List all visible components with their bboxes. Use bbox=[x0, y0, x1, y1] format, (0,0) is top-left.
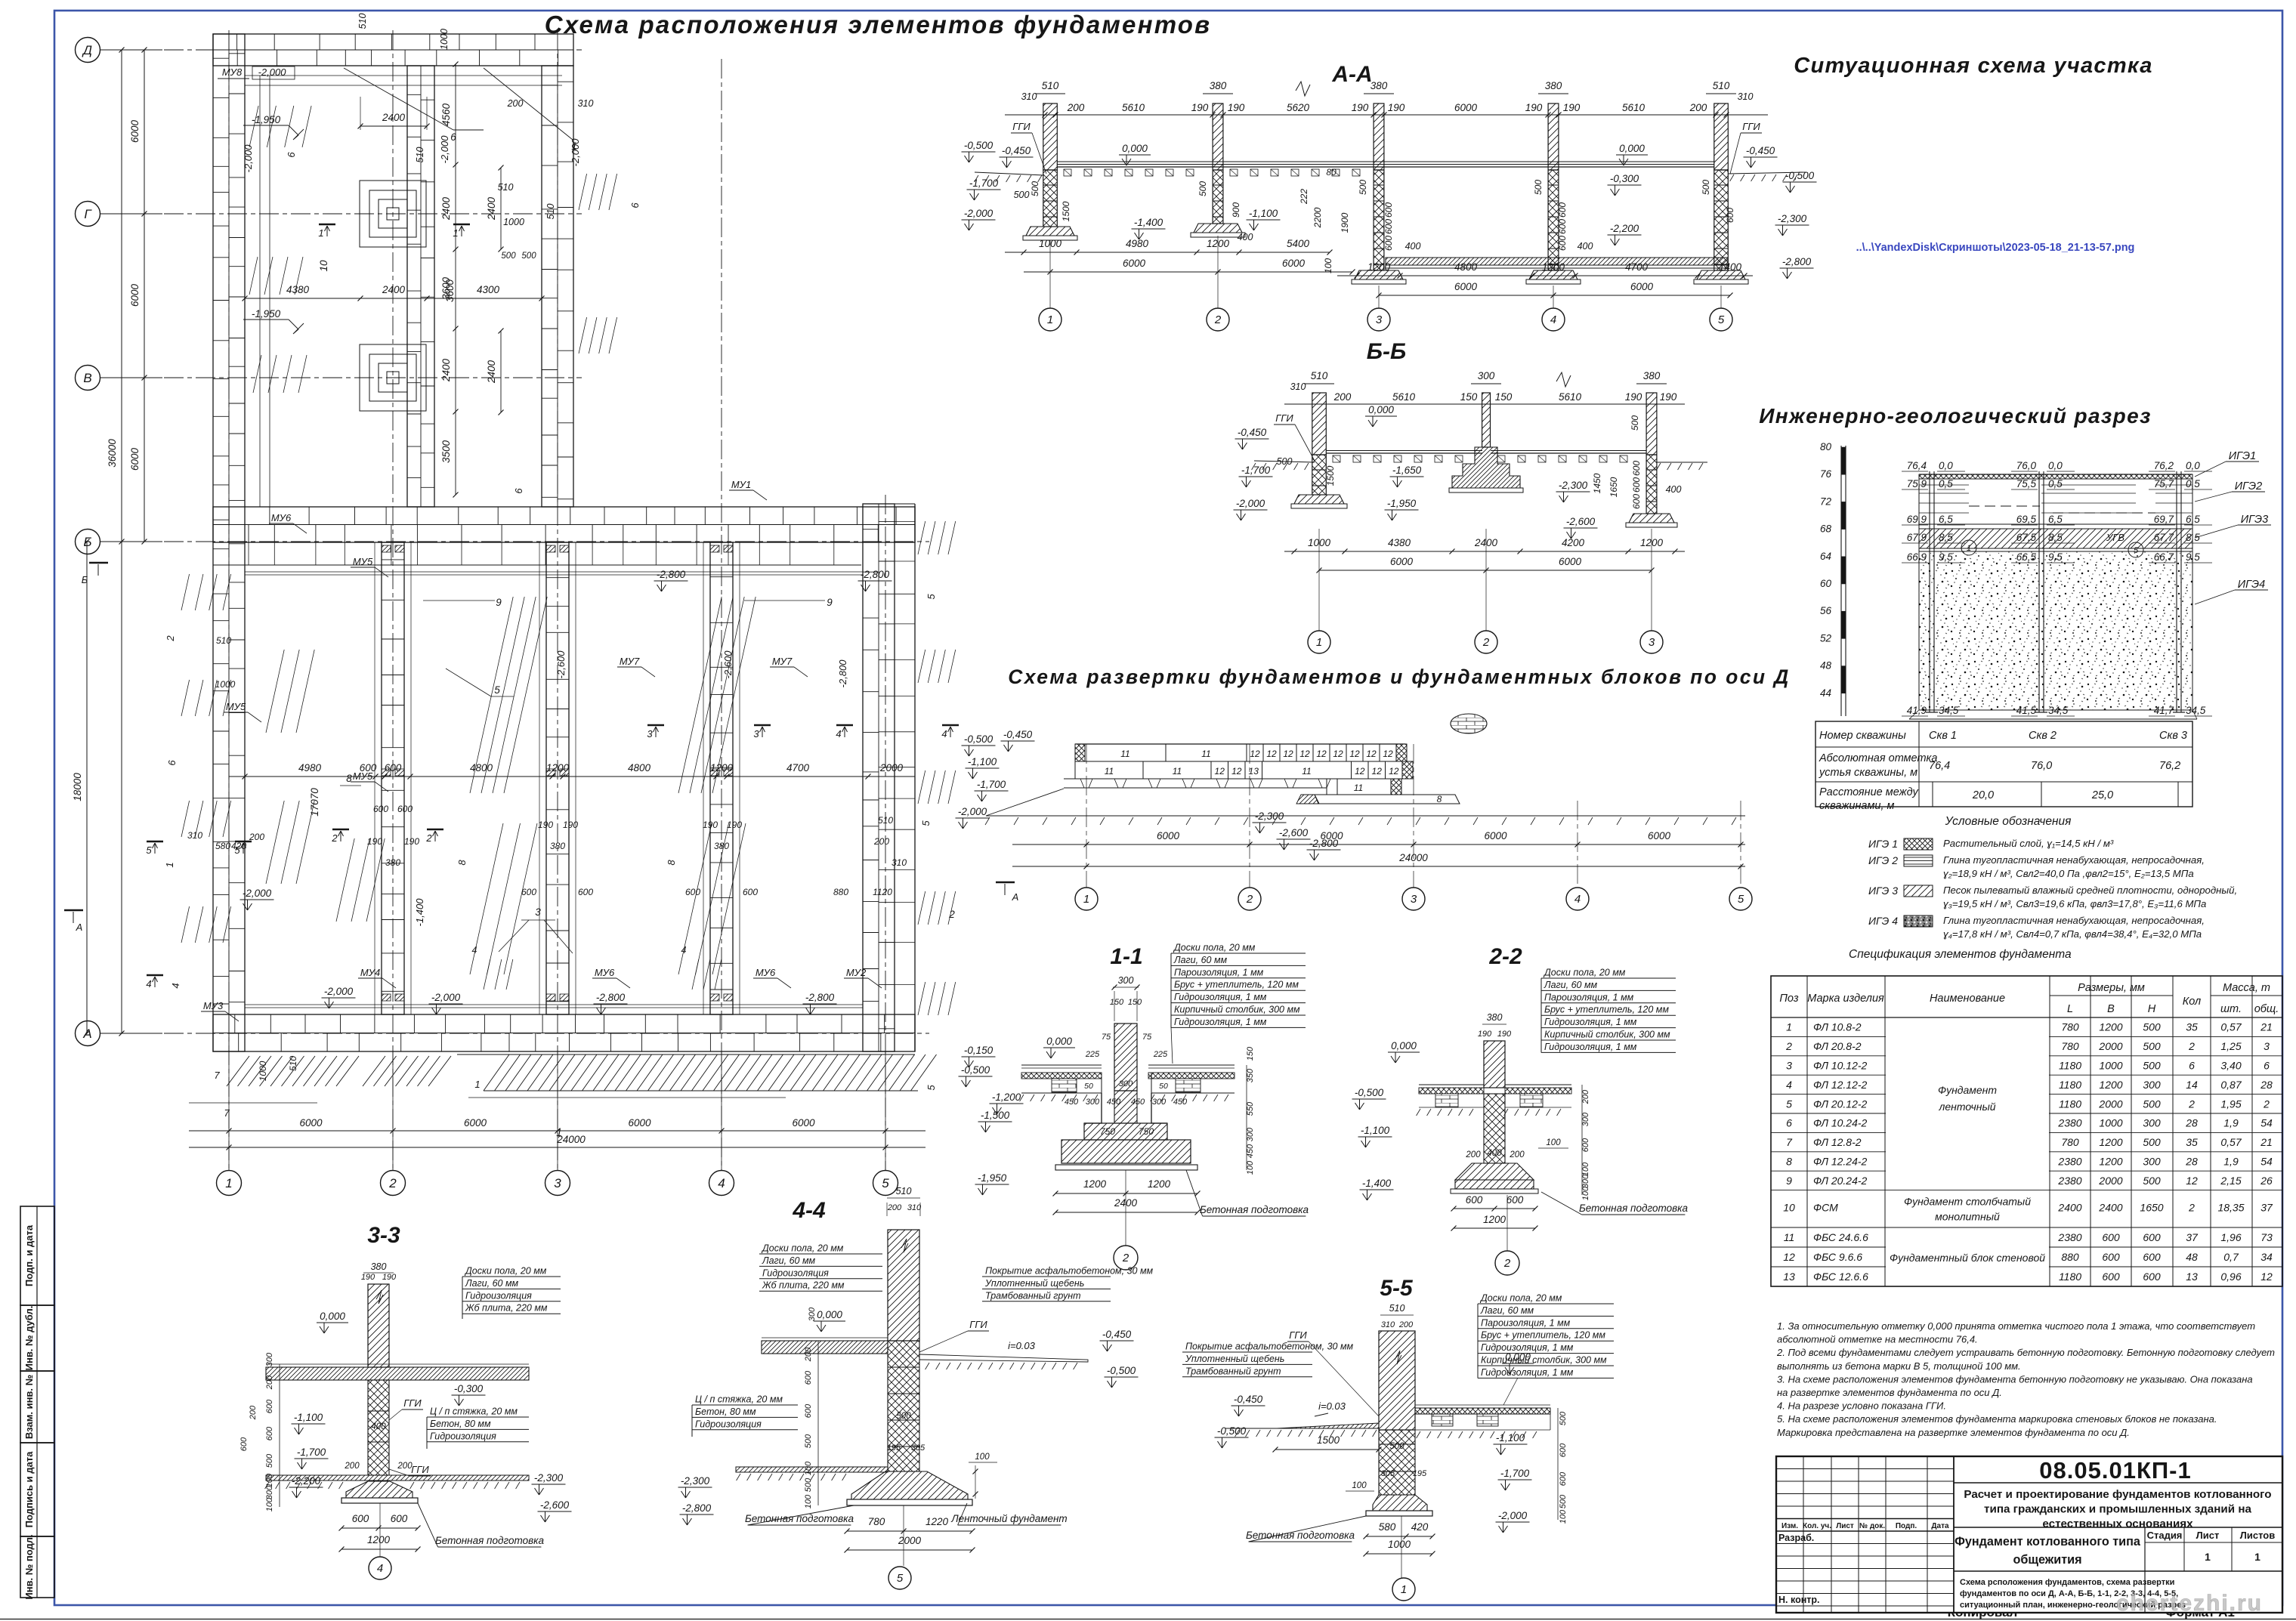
svg-text:-1,200: -1,200 bbox=[992, 1091, 1021, 1103]
svg-text:400: 400 bbox=[1666, 484, 1682, 495]
svg-text:ФЛ 12.12-2: ФЛ 12.12-2 bbox=[1813, 1079, 1868, 1091]
svg-text:76,0: 76,0 bbox=[2016, 460, 2037, 471]
svg-text:750: 750 bbox=[1100, 1126, 1115, 1137]
svg-text:ГГИ: ГГИ bbox=[1742, 121, 1760, 132]
svg-text:600: 600 bbox=[385, 762, 402, 773]
svg-text:МУ6: МУ6 bbox=[271, 512, 292, 523]
svg-text:600: 600 bbox=[352, 1513, 369, 1524]
svg-text:Схема рсположения фундаментов,: Схема рсположения фундаментов, схема раз… bbox=[1960, 1578, 2174, 1587]
svg-text:Маркировка представлена на раз: Маркировка представлена на развертке эле… bbox=[1777, 1427, 2130, 1438]
svg-text:310: 310 bbox=[1738, 91, 1754, 102]
svg-text:80: 80 bbox=[1326, 167, 1337, 178]
svg-text:67,9: 67,9 bbox=[1907, 532, 1927, 543]
svg-text:2000: 2000 bbox=[879, 762, 904, 773]
svg-text:6: 6 bbox=[629, 202, 641, 208]
svg-text:1,95: 1,95 bbox=[2220, 1098, 2241, 1110]
svg-text:600: 600 bbox=[2143, 1251, 2161, 1263]
svg-text:600: 600 bbox=[1506, 1194, 1524, 1206]
svg-text:1: 1 bbox=[1047, 313, 1053, 326]
svg-text:600: 600 bbox=[265, 1426, 274, 1440]
svg-text:0,000: 0,000 bbox=[1619, 143, 1645, 154]
svg-text:1400: 1400 bbox=[1719, 261, 1742, 273]
svg-text:5620: 5620 bbox=[1287, 102, 1310, 113]
svg-text:11: 11 bbox=[1105, 766, 1114, 777]
svg-text:5: 5 bbox=[234, 844, 240, 856]
svg-text:Масса, т: Масса, т bbox=[2223, 982, 2270, 994]
svg-text:Бетонная подготовка: Бетонная подготовка bbox=[1200, 1204, 1309, 1215]
svg-text:200: 200 bbox=[873, 836, 889, 847]
svg-text:34,5: 34,5 bbox=[2048, 705, 2069, 716]
svg-text:500: 500 bbox=[1630, 415, 1640, 431]
svg-text:1000: 1000 bbox=[215, 679, 236, 690]
svg-text:Расчет и проектирование фундам: Расчет и проектирование фундаментов котл… bbox=[1964, 1488, 2271, 1501]
svg-text:МУ7: МУ7 bbox=[772, 656, 793, 667]
svg-text:-1,700: -1,700 bbox=[1500, 1468, 1530, 1479]
svg-text:4: 4 bbox=[472, 945, 477, 956]
svg-text:6000: 6000 bbox=[129, 283, 141, 307]
svg-text:Взам. инв. №: Взам. инв. № bbox=[23, 1375, 35, 1439]
svg-text:76: 76 bbox=[1820, 468, 1832, 480]
svg-text:12: 12 bbox=[1366, 749, 1377, 759]
svg-text:ФСМ: ФСМ bbox=[1813, 1202, 1838, 1214]
svg-text:2: 2 bbox=[2188, 1098, 2195, 1110]
svg-text:Гидроизоляция: Гидроизоляция bbox=[430, 1431, 496, 1441]
svg-text:510: 510 bbox=[216, 635, 231, 646]
svg-text:510: 510 bbox=[288, 1056, 298, 1071]
svg-text:12: 12 bbox=[1316, 749, 1327, 759]
svg-text:2400: 2400 bbox=[486, 360, 497, 384]
svg-text:400: 400 bbox=[371, 1422, 386, 1431]
svg-text:190: 190 bbox=[1228, 102, 1245, 113]
svg-text:6000: 6000 bbox=[1559, 556, 1582, 567]
svg-text:310: 310 bbox=[1021, 91, 1037, 102]
svg-text:500: 500 bbox=[2143, 1175, 2161, 1187]
svg-text:Кол: Кол bbox=[2183, 996, 2201, 1008]
svg-text:Доски пола, 20 мм: Доски пола, 20 мм bbox=[761, 1243, 844, 1254]
svg-text:6000: 6000 bbox=[1454, 102, 1478, 113]
svg-text:420: 420 bbox=[1411, 1521, 1429, 1533]
svg-text:300: 300 bbox=[2143, 1079, 2161, 1091]
svg-text:В: В bbox=[83, 371, 91, 385]
svg-text:Гидроизоляция, 1 мм: Гидроизоляция, 1 мм bbox=[1544, 1042, 1637, 1052]
svg-text:ФЛ 20.12-2: ФЛ 20.12-2 bbox=[1813, 1098, 1868, 1110]
svg-text:ГГИ: ГГИ bbox=[1289, 1329, 1307, 1341]
svg-text:Лаги, 60 мм: Лаги, 60 мм bbox=[1544, 980, 1598, 990]
svg-text:-2,300: -2,300 bbox=[1559, 480, 1588, 491]
svg-text:1. За относительную отметку: 1. За относительную отметку 0,000 принят… bbox=[1777, 1320, 2255, 1332]
svg-text:4700: 4700 bbox=[1625, 261, 1649, 273]
svg-text:-2,800: -2,800 bbox=[861, 569, 890, 580]
svg-text:510: 510 bbox=[1713, 80, 1730, 91]
svg-text:5-5: 5-5 bbox=[1380, 1276, 1414, 1301]
svg-text:Гидроизоляция: Гидроизоляция bbox=[695, 1419, 762, 1429]
svg-text:Бетонная подготовка: Бетонная подготовка bbox=[1246, 1530, 1355, 1541]
svg-text:190: 190 bbox=[1191, 102, 1209, 113]
svg-text:4: 4 bbox=[836, 728, 841, 739]
svg-text:0,57: 0,57 bbox=[2220, 1136, 2242, 1148]
svg-text:-0,500: -0,500 bbox=[964, 733, 993, 745]
svg-text:2: 2 bbox=[1482, 636, 1490, 649]
svg-text:600: 600 bbox=[1466, 1194, 1483, 1206]
svg-text:69,9: 69,9 bbox=[1907, 514, 1927, 525]
svg-text:75: 75 bbox=[1142, 1033, 1152, 1042]
svg-text:-2,000: -2,000 bbox=[964, 208, 993, 219]
svg-text:67,7: 67,7 bbox=[2154, 532, 2174, 543]
svg-text:Песок пылеватый влажный средне: Песок пылеватый влажный средней плотност… bbox=[1943, 885, 2237, 896]
svg-text:7: 7 bbox=[224, 1107, 230, 1119]
svg-text:4: 4 bbox=[1786, 1079, 1792, 1091]
svg-text:880: 880 bbox=[833, 887, 848, 897]
svg-text:Ситуационная схема участка: Ситуационная схема участка bbox=[1794, 54, 2152, 78]
svg-text:6000: 6000 bbox=[129, 119, 141, 143]
svg-text:0,0: 0,0 bbox=[2186, 460, 2200, 471]
svg-text:Гидроизоляция, 1 мм: Гидроизоляция, 1 мм bbox=[1174, 992, 1267, 1002]
svg-text:600: 600 bbox=[1557, 236, 1568, 251]
svg-text:5: 5 bbox=[926, 594, 937, 600]
svg-text:6000: 6000 bbox=[1282, 258, 1306, 269]
svg-text:300: 300 bbox=[1152, 1098, 1167, 1107]
svg-text:-2,600: -2,600 bbox=[555, 650, 567, 679]
svg-text:600: 600 bbox=[373, 804, 388, 814]
svg-text:4: 4 bbox=[1550, 313, 1556, 326]
svg-text:76,0: 76,0 bbox=[2031, 760, 2052, 772]
svg-text:6: 6 bbox=[2189, 1060, 2195, 1072]
svg-text:13: 13 bbox=[2186, 1271, 2198, 1283]
svg-text:1200: 1200 bbox=[546, 762, 570, 773]
svg-text:54: 54 bbox=[2260, 1117, 2273, 1129]
svg-text:600: 600 bbox=[265, 1399, 274, 1413]
svg-text:ɣ₂=18,9 кН / м³, Свл2=40,0: ɣ₂=18,9 кН / м³, Свл2=40,0 Па ,φвл2=15°,… bbox=[1943, 868, 2194, 879]
svg-text:380: 380 bbox=[1210, 80, 1227, 91]
svg-text:300: 300 bbox=[1581, 1112, 1590, 1126]
svg-text:500: 500 bbox=[501, 252, 516, 261]
svg-text:37: 37 bbox=[2260, 1202, 2273, 1214]
svg-text:100: 100 bbox=[1581, 1162, 1590, 1176]
svg-text:600: 600 bbox=[2143, 1231, 2161, 1243]
svg-text:-0,450: -0,450 bbox=[1238, 427, 1267, 438]
svg-text:225: 225 bbox=[1153, 1050, 1168, 1059]
svg-text:450: 450 bbox=[1107, 1098, 1121, 1107]
svg-text:ФЛ 10.24-2: ФЛ 10.24-2 bbox=[1813, 1117, 1868, 1129]
svg-text:190: 190 bbox=[1563, 102, 1581, 113]
svg-text:2400: 2400 bbox=[440, 196, 452, 221]
svg-text:0,000: 0,000 bbox=[1122, 143, 1148, 154]
svg-text:Дата: Дата bbox=[1931, 1522, 1949, 1530]
svg-text:ФБС 24.6.6: ФБС 24.6.6 bbox=[1813, 1231, 1868, 1243]
svg-text:2380: 2380 bbox=[2057, 1231, 2081, 1243]
svg-text:Бетонная подготовка: Бетонная подготовка bbox=[1579, 1203, 1689, 1214]
svg-text:8: 8 bbox=[346, 773, 352, 784]
svg-text:4: 4 bbox=[377, 1562, 383, 1575]
svg-text:-0,300: -0,300 bbox=[1610, 173, 1639, 184]
svg-text:500: 500 bbox=[1559, 1494, 1568, 1508]
svg-text:222: 222 bbox=[1299, 189, 1309, 205]
svg-text:12: 12 bbox=[1231, 766, 1242, 777]
svg-text:1,96: 1,96 bbox=[2220, 1231, 2241, 1243]
svg-text:-2,800: -2,800 bbox=[805, 992, 835, 1003]
svg-text:76,2: 76,2 bbox=[2159, 760, 2180, 772]
svg-text:4700: 4700 bbox=[786, 762, 810, 773]
svg-text:780: 780 bbox=[2061, 1136, 2079, 1148]
svg-text:естественных основаниях: естественных основаниях bbox=[2042, 1518, 2193, 1530]
svg-text:12: 12 bbox=[1283, 749, 1293, 759]
svg-text:-2,000: -2,000 bbox=[431, 992, 461, 1003]
svg-text:общ.: общ. bbox=[2254, 1003, 2279, 1015]
svg-text:-1,100: -1,100 bbox=[294, 1412, 323, 1423]
svg-text:6,5: 6,5 bbox=[1939, 514, 1953, 525]
svg-text:450: 450 bbox=[1246, 1144, 1255, 1158]
svg-text:0,000: 0,000 bbox=[1368, 404, 1394, 415]
svg-text:12: 12 bbox=[1389, 766, 1399, 777]
svg-text:300: 300 bbox=[2143, 1156, 2161, 1168]
svg-text:8: 8 bbox=[666, 860, 677, 866]
svg-text:Марка изделия: Марка изделия bbox=[1807, 993, 1884, 1005]
svg-text:200: 200 bbox=[265, 1375, 274, 1390]
svg-text:-1,700: -1,700 bbox=[297, 1447, 326, 1458]
svg-text:-2,800: -2,800 bbox=[596, 992, 626, 1003]
svg-text:Покрытие асфальтобетоном, 30 м: Покрытие асфальтобетоном, 30 мм bbox=[985, 1266, 1154, 1277]
svg-text:4980: 4980 bbox=[298, 762, 322, 773]
svg-text:Лаги, 60 мм: Лаги, 60 мм bbox=[465, 1278, 519, 1289]
svg-text:6000: 6000 bbox=[1390, 556, 1414, 567]
svg-text:-0,500: -0,500 bbox=[964, 140, 993, 151]
svg-text:780: 780 bbox=[868, 1516, 885, 1527]
svg-text:500: 500 bbox=[804, 1434, 813, 1448]
svg-text:типа гражданских и промышленны: типа гражданских и промышленных зданий н… bbox=[1984, 1503, 2251, 1516]
svg-text:-0,450: -0,450 bbox=[1102, 1329, 1132, 1340]
svg-text:100: 100 bbox=[1323, 258, 1333, 273]
svg-text:36000: 36000 bbox=[107, 439, 118, 468]
svg-text:73: 73 bbox=[2260, 1231, 2273, 1243]
svg-text:-2,300: -2,300 bbox=[534, 1472, 564, 1484]
svg-text:Схема расположения элементов ф: Схема расположения элементов фундаментов bbox=[545, 11, 1212, 39]
svg-text:3: 3 bbox=[1411, 893, 1417, 906]
svg-text:400: 400 bbox=[1238, 232, 1253, 242]
svg-text:0,7: 0,7 bbox=[2223, 1251, 2239, 1263]
svg-text:Стадия: Стадия bbox=[2147, 1530, 2183, 1541]
svg-text:300: 300 bbox=[2143, 1117, 2161, 1129]
svg-text:-1,950: -1,950 bbox=[252, 308, 281, 320]
svg-text:ИГЭ2: ИГЭ2 bbox=[2235, 480, 2262, 492]
svg-text:6: 6 bbox=[286, 152, 297, 158]
svg-text:1: 1 bbox=[1316, 636, 1322, 649]
svg-text:190: 190 bbox=[727, 820, 742, 830]
svg-text:510: 510 bbox=[1389, 1303, 1405, 1314]
svg-text:-1,700: -1,700 bbox=[977, 779, 1006, 790]
svg-text:12: 12 bbox=[2186, 1175, 2198, 1187]
svg-text:10: 10 bbox=[1783, 1202, 1795, 1214]
svg-text:-2,600: -2,600 bbox=[722, 650, 734, 679]
svg-text:Гидроизоляция: Гидроизоляция bbox=[465, 1290, 532, 1301]
svg-text:8: 8 bbox=[1437, 794, 1442, 804]
svg-text:Ц / п стяжка, 20 мм: Ц / п стяжка, 20 мм bbox=[430, 1406, 518, 1417]
svg-text:600: 600 bbox=[743, 887, 758, 897]
svg-text:380: 380 bbox=[1370, 80, 1388, 91]
svg-text:510: 510 bbox=[896, 1186, 912, 1196]
svg-text:Инв. № дубл.: Инв. № дубл. bbox=[23, 1306, 35, 1371]
svg-text:1180: 1180 bbox=[2059, 1271, 2081, 1283]
svg-text:5: 5 bbox=[146, 844, 152, 856]
svg-text:2000: 2000 bbox=[898, 1535, 922, 1546]
svg-text:Спецификация элементов фундаме: Спецификация элементов фундамента bbox=[1849, 948, 2072, 961]
svg-text:Брус + утеплитель, 120 мм: Брус + утеплитель, 120 мм bbox=[1544, 1005, 1669, 1015]
svg-text:225: 225 bbox=[1085, 1050, 1100, 1059]
svg-text:200: 200 bbox=[1581, 1089, 1590, 1104]
svg-text:1650: 1650 bbox=[1608, 477, 1619, 497]
svg-text:2400: 2400 bbox=[440, 358, 452, 382]
svg-text:600: 600 bbox=[239, 1437, 249, 1451]
svg-text:2,15: 2,15 bbox=[2220, 1175, 2241, 1187]
svg-text:150: 150 bbox=[1495, 391, 1513, 403]
svg-text:500: 500 bbox=[1197, 181, 1208, 196]
svg-text:510: 510 bbox=[1311, 370, 1328, 381]
svg-text:-2,000: -2,000 bbox=[439, 135, 450, 164]
svg-text:-1,100: -1,100 bbox=[1361, 1125, 1390, 1136]
svg-text:14: 14 bbox=[2186, 1079, 2198, 1091]
svg-text:6000: 6000 bbox=[1157, 830, 1180, 841]
svg-text:Трамбованный грунт: Трамбованный грунт bbox=[1185, 1366, 1281, 1376]
svg-text:1220: 1220 bbox=[926, 1516, 949, 1527]
svg-text:500: 500 bbox=[896, 1412, 911, 1421]
svg-text:200: 200 bbox=[804, 1347, 813, 1362]
svg-text:Гидроизоляция, 1 мм: Гидроизоляция, 1 мм bbox=[1481, 1367, 1574, 1378]
svg-text:-1,950: -1,950 bbox=[1387, 498, 1417, 509]
svg-text:6000: 6000 bbox=[792, 1117, 815, 1129]
svg-text:Скв 1: Скв 1 bbox=[1929, 730, 1957, 742]
svg-text:Доски пола, 20 мм: Доски пола, 20 мм bbox=[1173, 943, 1256, 953]
svg-text:0,87: 0,87 bbox=[2220, 1079, 2242, 1091]
svg-text:60: 60 bbox=[1820, 578, 1832, 589]
svg-text:69,7: 69,7 bbox=[2154, 514, 2174, 525]
svg-text:380: 380 bbox=[1487, 1012, 1503, 1023]
svg-text:11: 11 bbox=[1354, 783, 1363, 793]
svg-text:600: 600 bbox=[1631, 477, 1642, 492]
svg-text:2: 2 bbox=[388, 1176, 397, 1190]
svg-text:0,000: 0,000 bbox=[1391, 1040, 1417, 1051]
svg-text:2: 2 bbox=[2263, 1098, 2270, 1110]
svg-text:2400: 2400 bbox=[382, 284, 406, 295]
svg-text:общежития: общежития bbox=[2013, 1553, 2081, 1567]
svg-text:МУ7: МУ7 bbox=[620, 656, 640, 667]
svg-text:2: 2 bbox=[331, 832, 338, 844]
svg-text:ФЛ 10.8-2: ФЛ 10.8-2 bbox=[1813, 1021, 1862, 1033]
svg-text:Уплотненный щебень: Уплотненный щебень bbox=[984, 1278, 1084, 1289]
svg-text:Фундаментный блок стеновой: Фундаментный блок стеновой bbox=[1890, 1252, 2045, 1264]
svg-text:200: 200 bbox=[249, 1405, 258, 1420]
svg-text:35: 35 bbox=[2186, 1136, 2198, 1148]
svg-text:100: 100 bbox=[1352, 1481, 1367, 1490]
svg-text:0,000: 0,000 bbox=[1046, 1036, 1072, 1047]
svg-text:4: 4 bbox=[681, 945, 687, 956]
svg-text:0,5: 0,5 bbox=[2186, 478, 2200, 489]
svg-text:-0,450: -0,450 bbox=[1003, 729, 1033, 740]
svg-text:20,0: 20,0 bbox=[1972, 789, 1994, 801]
svg-text:9,5: 9,5 bbox=[2048, 551, 2063, 563]
svg-text:100: 100 bbox=[1246, 1160, 1255, 1175]
svg-text:6: 6 bbox=[166, 760, 178, 766]
svg-text:Инв. № подл.: Инв. № подл. bbox=[23, 1534, 35, 1599]
svg-text:1450: 1450 bbox=[1592, 473, 1602, 493]
svg-text:50: 50 bbox=[1159, 1082, 1168, 1091]
svg-text:5: 5 bbox=[2134, 546, 2139, 555]
svg-text:9: 9 bbox=[827, 597, 833, 608]
svg-text:-2,000: -2,000 bbox=[258, 66, 287, 78]
svg-text:-1,400: -1,400 bbox=[1134, 217, 1163, 228]
svg-text:Кирпичный столбик, 300 мм: Кирпичный столбик, 300 мм bbox=[1481, 1355, 1607, 1366]
svg-text:Глина тугопластичная ненабухаю: Глина тугопластичная ненабухающая, непро… bbox=[1943, 854, 2205, 866]
svg-text:Инженерно-геологический разрез: Инженерно-геологический разрез bbox=[1759, 404, 2152, 428]
svg-text:305: 305 bbox=[1381, 1469, 1395, 1478]
svg-text:900: 900 bbox=[1231, 202, 1241, 218]
svg-text:2: 2 bbox=[2188, 1040, 2195, 1052]
svg-text:190: 190 bbox=[563, 820, 578, 830]
svg-text:48: 48 bbox=[2186, 1251, 2198, 1263]
svg-text:-2,000: -2,000 bbox=[1498, 1510, 1528, 1521]
svg-text:ИГЭ4: ИГЭ4 bbox=[2238, 579, 2265, 591]
svg-text:200: 200 bbox=[1689, 102, 1707, 113]
svg-text:18,35: 18,35 bbox=[2217, 1202, 2244, 1214]
svg-text:8: 8 bbox=[456, 860, 468, 866]
svg-text:Брус + утеплитель, 120 мм: Брус + утеплитель, 120 мм bbox=[1481, 1330, 1605, 1341]
svg-text:150: 150 bbox=[1110, 998, 1124, 1007]
svg-text:1: 1 bbox=[318, 227, 323, 239]
svg-text:1: 1 bbox=[571, 140, 577, 152]
svg-text:1: 1 bbox=[2205, 1551, 2211, 1563]
svg-text:6: 6 bbox=[2264, 1060, 2270, 1072]
svg-text:75,7: 75,7 bbox=[2154, 478, 2174, 489]
svg-text:2: 2 bbox=[425, 832, 432, 844]
svg-text:4980: 4980 bbox=[1126, 238, 1149, 249]
svg-text:600: 600 bbox=[2102, 1271, 2120, 1283]
svg-text:Расстояние между: Расстояние между bbox=[1819, 786, 1918, 798]
svg-text:5: 5 bbox=[926, 1085, 937, 1091]
svg-text:200: 200 bbox=[397, 1462, 413, 1471]
svg-text:6: 6 bbox=[513, 488, 524, 494]
svg-text:ГГИ: ГГИ bbox=[1012, 121, 1031, 132]
svg-text:300: 300 bbox=[265, 1352, 274, 1366]
svg-text:580: 580 bbox=[215, 841, 230, 851]
svg-text:190: 190 bbox=[361, 1273, 375, 1282]
svg-text:МУ3: МУ3 bbox=[203, 1000, 224, 1011]
svg-text:380: 380 bbox=[1545, 80, 1562, 91]
svg-text:-2,000: -2,000 bbox=[324, 986, 354, 997]
svg-text:1: 1 bbox=[1967, 544, 1971, 553]
svg-text:200: 200 bbox=[1067, 102, 1085, 113]
svg-text:Бетон, 80 мм: Бетон, 80 мм bbox=[695, 1406, 756, 1417]
svg-text:2-2: 2-2 bbox=[1488, 944, 1522, 969]
svg-text:69,5: 69,5 bbox=[2016, 514, 2037, 525]
svg-text:3: 3 bbox=[1649, 636, 1655, 649]
svg-text:Подпись и дата: Подпись и дата bbox=[23, 1451, 35, 1527]
svg-text:300: 300 bbox=[1086, 1098, 1100, 1107]
svg-text:500: 500 bbox=[1559, 1411, 1568, 1425]
svg-text:Брус + утеплитель, 120 мм: Брус + утеплитель, 120 мм bbox=[1174, 980, 1299, 990]
svg-text:1200: 1200 bbox=[2099, 1156, 2122, 1168]
svg-text:1000: 1000 bbox=[503, 217, 524, 227]
svg-text:28: 28 bbox=[2260, 1079, 2273, 1091]
svg-text:-0,500: -0,500 bbox=[961, 1064, 990, 1076]
svg-text:21: 21 bbox=[2260, 1136, 2273, 1148]
svg-text:44: 44 bbox=[1820, 687, 1831, 699]
svg-text:1120: 1120 bbox=[873, 887, 892, 897]
svg-text:4300: 4300 bbox=[477, 284, 500, 295]
svg-text:5610: 5610 bbox=[1122, 102, 1145, 113]
svg-text:500: 500 bbox=[265, 1453, 274, 1468]
svg-text:6,5: 6,5 bbox=[2048, 514, 2063, 525]
svg-text:ФБС 12.6.6: ФБС 12.6.6 bbox=[1813, 1271, 1868, 1283]
svg-text:Скв 3: Скв 3 bbox=[2159, 730, 2187, 742]
svg-text:34,5: 34,5 bbox=[2186, 705, 2206, 716]
